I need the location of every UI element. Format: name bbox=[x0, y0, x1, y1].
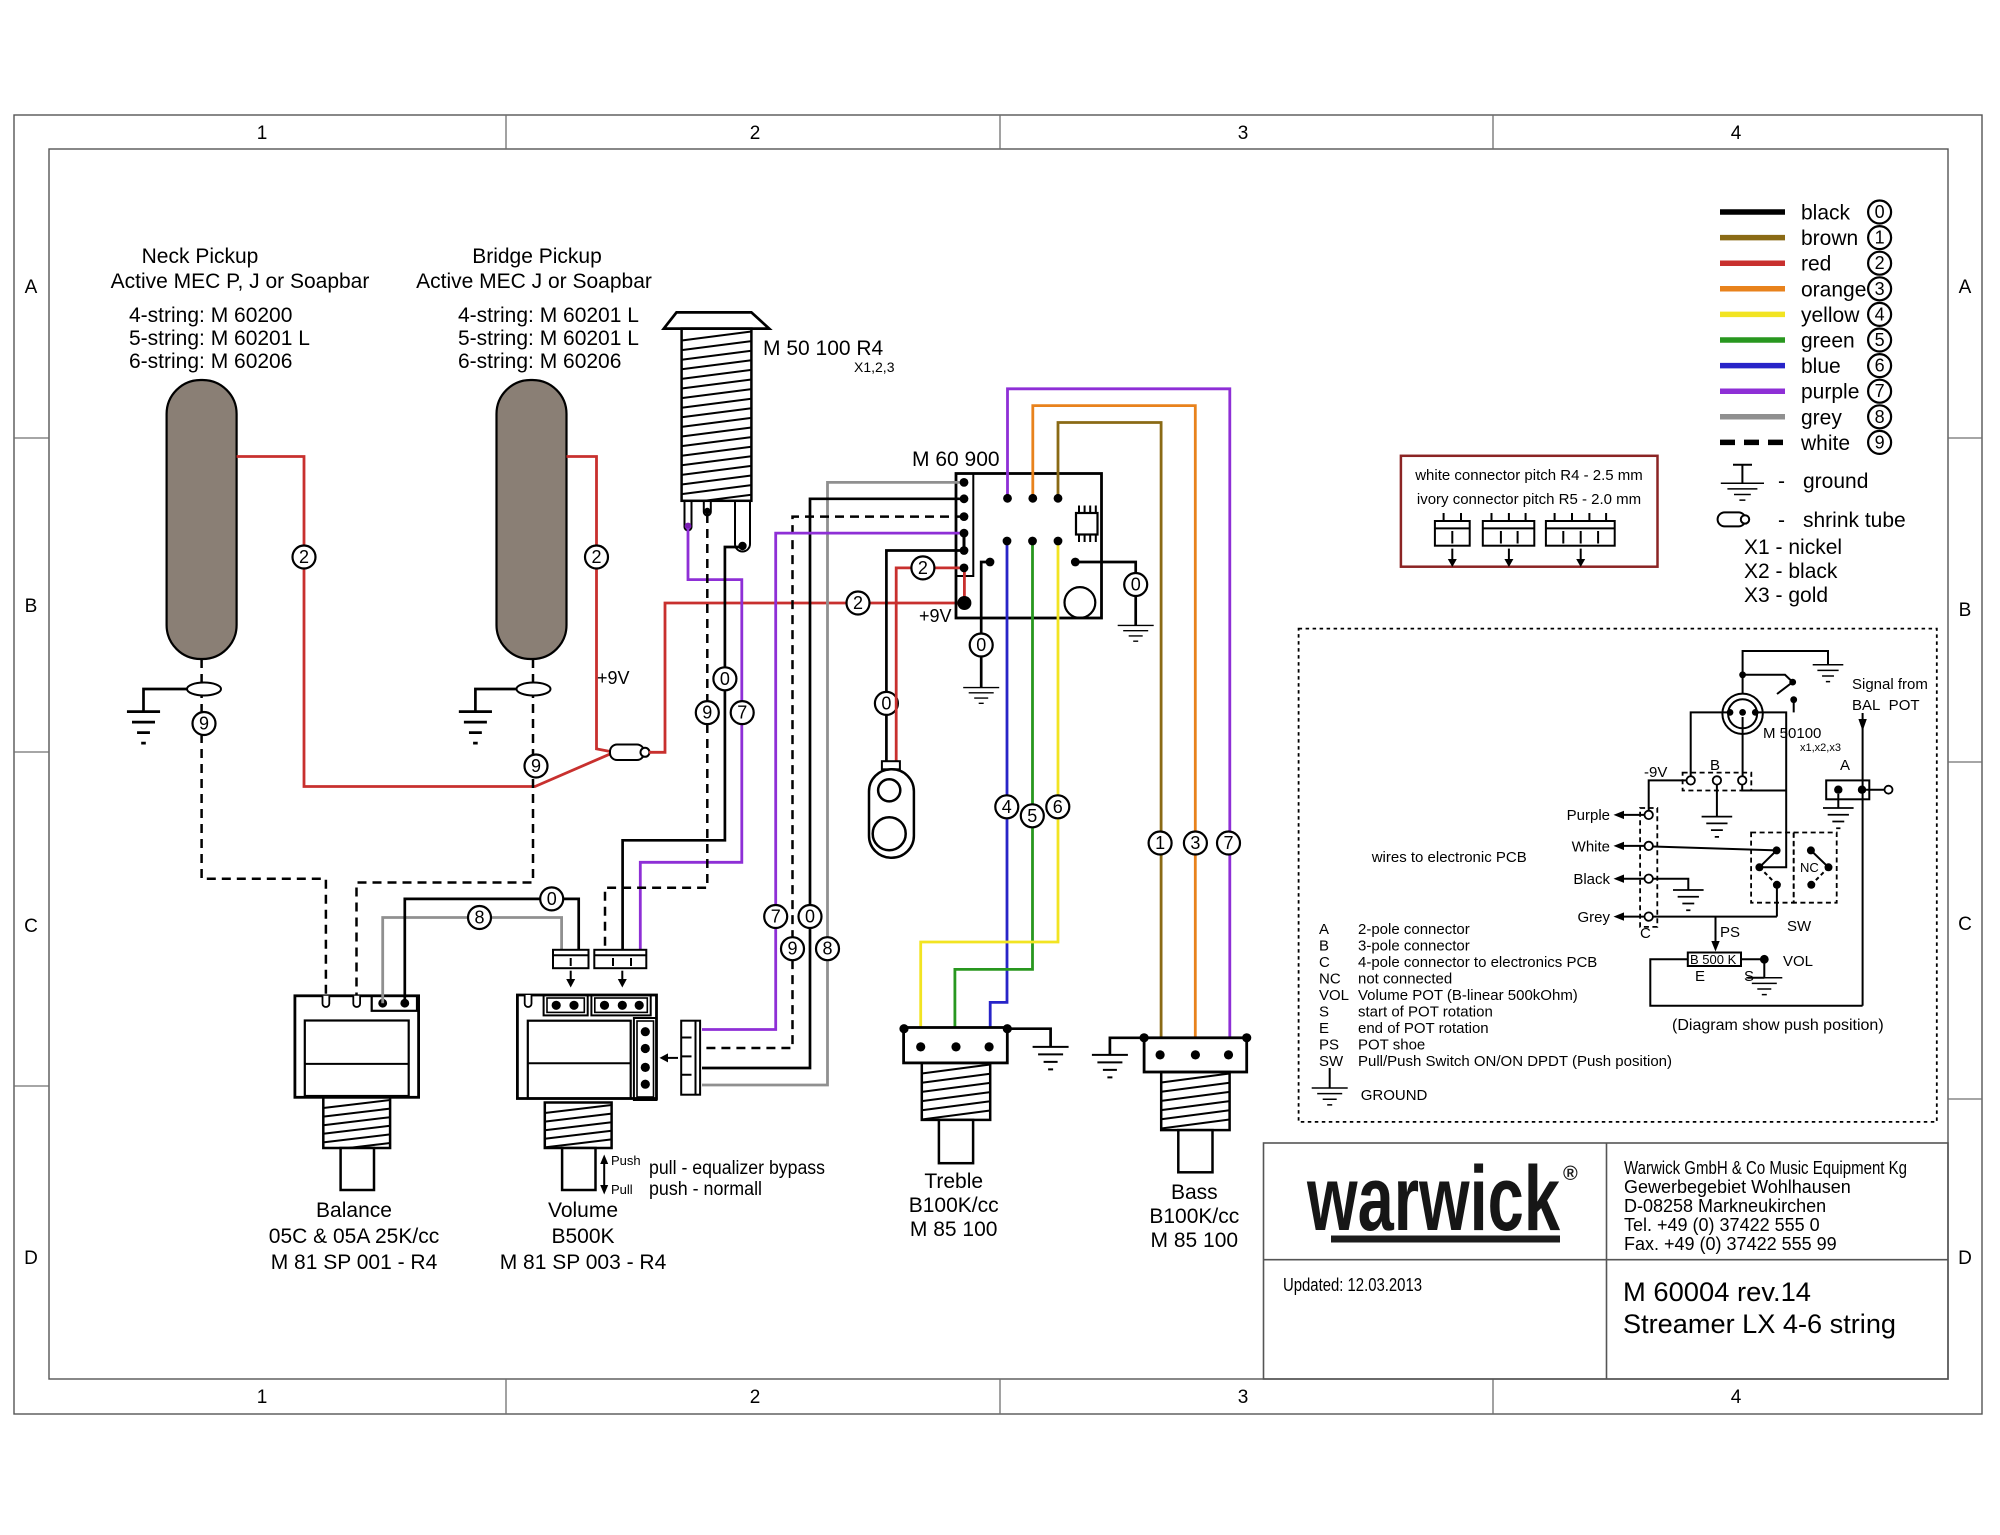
jack barrel threaded body bbox=[682, 332, 752, 504]
detail jack M 50100 circles bbox=[1722, 694, 1762, 734]
legend wire red bbox=[1720, 260, 1785, 266]
svg-text:0: 0 bbox=[1131, 575, 1141, 595]
svg-text:1: 1 bbox=[257, 1387, 268, 1408]
bass pot knob bbox=[1178, 1130, 1212, 1172]
balance pot labels bbox=[269, 1199, 439, 1274]
svg-text:X2 - black: X2 - black bbox=[1744, 560, 1838, 583]
volume push pull arrow bbox=[603, 1162, 605, 1187]
connector symbol 2-pole bbox=[1435, 521, 1470, 546]
detail wire White to SW bbox=[1653, 847, 1777, 851]
detail wire Grey to SW bottom bbox=[1653, 916, 1777, 918]
svg-text:D: D bbox=[1958, 1248, 1972, 1269]
balance pot shaft bbox=[323, 1100, 390, 1151]
svg-text:PS: PS bbox=[1720, 924, 1740, 941]
svg-text:C: C bbox=[24, 916, 38, 937]
svg-text:M 60004 rev.14: M 60004 rev.14 bbox=[1623, 1277, 1811, 1307]
detail wire jack top to ground bbox=[1743, 651, 1828, 694]
ground detail legend bbox=[1312, 1088, 1348, 1105]
svg-text:4-string: M 60200: 4-string: M 60200 bbox=[129, 304, 292, 327]
svg-text:grey: grey bbox=[1801, 406, 1842, 429]
volume pot knob bbox=[562, 1148, 595, 1190]
svg-text:9: 9 bbox=[199, 714, 209, 734]
svg-text:4: 4 bbox=[1731, 123, 1742, 144]
wire yellow PCB to treble pot bbox=[921, 541, 1058, 1046]
svg-text:PS: PS bbox=[1319, 1037, 1339, 1054]
svg-text:X1,2,3: X1,2,3 bbox=[854, 359, 895, 375]
svg-text:ground: ground bbox=[1803, 470, 1868, 493]
node label circled 9 on neck dashed wire bbox=[193, 712, 216, 735]
frame labels rows right bbox=[1958, 277, 1972, 1269]
detail wire B pin3 to SW vertical bbox=[1742, 785, 1786, 791]
svg-text:Pull: Pull bbox=[611, 1182, 633, 1197]
svg-text:VOL: VOL bbox=[1783, 953, 1813, 970]
svg-text:SW: SW bbox=[1319, 1053, 1344, 1070]
svg-text:Bass: Bass bbox=[1171, 1181, 1218, 1204]
detail wire E side bbox=[1650, 959, 1862, 1006]
node label circled 2 on neck red wire bbox=[293, 546, 316, 569]
node label circled 0 on pcb ground wire left bbox=[970, 634, 993, 657]
svg-text:(Diagram show push position): (Diagram show push position) bbox=[1672, 1017, 1884, 1034]
svg-text:M 85 100: M 85 100 bbox=[910, 1218, 998, 1241]
svg-text:7: 7 bbox=[771, 907, 781, 927]
svg-text:Black: Black bbox=[1573, 871, 1610, 888]
svg-text:Purple: Purple bbox=[1567, 807, 1610, 824]
svg-text:Push: Push bbox=[611, 1153, 641, 1168]
svg-text:7: 7 bbox=[737, 703, 747, 723]
PCB bottom row pins bbox=[1003, 537, 1012, 546]
frame column ticks top bbox=[506, 115, 1493, 149]
legend shrink tube symbol bbox=[1718, 512, 1746, 526]
battery clip small terminal bbox=[878, 779, 900, 801]
svg-text:Active MEC P, J or Soapbar: Active MEC P, J or Soapbar bbox=[111, 270, 370, 293]
battery clip cap bbox=[882, 761, 900, 769]
wire treble case ground bbox=[1007, 1029, 1050, 1047]
svg-text:green: green bbox=[1801, 330, 1855, 353]
svg-text:white: white bbox=[1800, 432, 1850, 455]
svg-text:Bridge Pickup: Bridge Pickup bbox=[472, 245, 602, 268]
svg-text:9: 9 bbox=[531, 756, 541, 776]
detail switch NC box bbox=[1794, 833, 1837, 903]
svg-text:-9V: -9V bbox=[1644, 764, 1667, 781]
svg-text:M 81 SP 003 - R4: M 81 SP 003 - R4 bbox=[500, 1251, 667, 1274]
Warwick logo bbox=[1306, 1148, 1578, 1250]
ground bass bbox=[1092, 1055, 1128, 1078]
svg-text:Fax. +49 (0) 37422 555 99: Fax. +49 (0) 37422 555 99 bbox=[1624, 1234, 1837, 1254]
svg-text:4-pole connector to electronic: 4-pole connector to electronics PCB bbox=[1358, 954, 1597, 971]
bass pot pins bbox=[1156, 1050, 1165, 1059]
svg-text:0: 0 bbox=[720, 669, 730, 689]
svg-text:B: B bbox=[25, 596, 38, 617]
svg-text:2: 2 bbox=[853, 593, 863, 613]
treble pot body bbox=[904, 1028, 1008, 1063]
detail wire -9V B pin1 to C pin1 bbox=[1649, 780, 1687, 810]
detail ground legend bbox=[1329, 1068, 1331, 1088]
svg-text:brown: brown bbox=[1801, 227, 1858, 250]
svg-text:S: S bbox=[1319, 1004, 1329, 1021]
balance pot knob bbox=[341, 1148, 374, 1190]
svg-text:E: E bbox=[1695, 968, 1705, 985]
PCB left pins bbox=[960, 478, 969, 487]
balance pot body bbox=[295, 996, 419, 1098]
svg-text:M 81 SP 001 - R4: M 81 SP 001 - R4 bbox=[271, 1251, 438, 1274]
svg-text:NC: NC bbox=[1319, 971, 1341, 988]
comb connector 3-pole above volume bbox=[594, 950, 646, 968]
comb connector 4-pole right of volume bbox=[681, 1021, 700, 1095]
svg-text:not connected: not connected bbox=[1358, 971, 1452, 988]
svg-text:1: 1 bbox=[1875, 228, 1885, 248]
bass pot shaft bbox=[1161, 1074, 1229, 1129]
svg-text:9: 9 bbox=[787, 939, 797, 959]
svg-text:2: 2 bbox=[750, 1387, 761, 1408]
svg-text:0: 0 bbox=[805, 907, 815, 927]
volume pot inner frame bbox=[528, 1021, 631, 1099]
wire bass case ground bbox=[1110, 1038, 1144, 1055]
svg-text:SW: SW bbox=[1787, 918, 1812, 935]
detail switch SW box bbox=[1751, 833, 1794, 903]
wire white neck pickup dashed to shrink tube bbox=[202, 659, 326, 996]
node label circled 9 on bridge dashed wire bbox=[525, 755, 548, 778]
node label circled 0 on battery black wire bbox=[875, 692, 898, 715]
ground detail jack bbox=[1813, 665, 1844, 682]
detail wire jack tip to SW bbox=[1755, 712, 1786, 867]
detail SW contacts bbox=[1773, 846, 1781, 854]
svg-text:C: C bbox=[1958, 914, 1972, 935]
legend ground bars bbox=[1721, 483, 1764, 500]
bass pot body bbox=[1144, 1038, 1247, 1072]
jack barrel cap bbox=[664, 312, 769, 328]
wire black jack tip to volume comb bbox=[623, 547, 742, 949]
node label circled 5 legend green bbox=[1868, 329, 1891, 352]
svg-text:5: 5 bbox=[1875, 330, 1885, 350]
title block outline bbox=[1264, 1143, 1949, 1379]
node label circled 1 on brown wire bbox=[1149, 832, 1172, 855]
svg-text:D-08258 Markneukirchen: D-08258 Markneukirchen bbox=[1624, 1196, 1826, 1216]
shrink tube on bridge ground wire bbox=[517, 683, 551, 696]
svg-text:2: 2 bbox=[918, 558, 928, 578]
connector symbol 3-pole bbox=[1483, 521, 1535, 546]
svg-text:B: B bbox=[1710, 757, 1720, 774]
jack prong 3 (tip) bbox=[735, 501, 750, 552]
wire black PCB left ground pin bbox=[981, 562, 990, 633]
svg-text:Pull/Push Switch ON/ON DPDT (P: Pull/Push Switch ON/ON DPDT (Push positi… bbox=[1358, 1053, 1672, 1070]
PCB +9V supply pin bbox=[957, 596, 971, 610]
wire bridge ground link bbox=[475, 689, 516, 712]
svg-text:B: B bbox=[1319, 938, 1329, 955]
balance pot slot 1 bbox=[323, 996, 330, 1007]
svg-text:red: red bbox=[1801, 253, 1831, 276]
comb 2-pole arrow bbox=[570, 971, 572, 980]
svg-text:1: 1 bbox=[1155, 833, 1165, 853]
svg-text:Volume POT (B-linear 500kOhm): Volume POT (B-linear 500kOhm) bbox=[1358, 987, 1578, 1004]
legend ground symbol bbox=[1733, 465, 1752, 483]
legend X finishes bbox=[1744, 536, 1842, 607]
volume pot labels bbox=[500, 1199, 667, 1274]
svg-text:0: 0 bbox=[1875, 202, 1885, 222]
svg-text:GROUND: GROUND bbox=[1361, 1087, 1428, 1104]
legend wire black bbox=[1720, 209, 1785, 215]
svg-text:3: 3 bbox=[1190, 833, 1200, 853]
svg-text:M 50100: M 50100 bbox=[1763, 725, 1821, 742]
svg-text:6-string: M 60206: 6-string: M 60206 bbox=[458, 350, 621, 373]
detail NC contacts bbox=[1807, 846, 1815, 854]
svg-text:8: 8 bbox=[1875, 407, 1885, 427]
wire white jack ring dashed to volume comb bbox=[605, 514, 707, 949]
node label circled 2 on battery red wire bbox=[911, 556, 934, 579]
svg-text:Updated: 12.03.2013: Updated: 12.03.2013 bbox=[1283, 1275, 1422, 1295]
svg-text:3: 3 bbox=[1238, 123, 1249, 144]
bridge pickup part numbers bbox=[458, 304, 639, 373]
svg-text:6-string: M 60206: 6-string: M 60206 bbox=[129, 350, 292, 373]
detail ground B centre pin bbox=[1716, 785, 1718, 817]
treble pot knob bbox=[939, 1120, 973, 1163]
svg-text:Active MEC J or Soapbar: Active MEC J or Soapbar bbox=[416, 270, 652, 293]
volume pot connector 3-pole bbox=[591, 995, 650, 1015]
node label circled 8 legend grey bbox=[1868, 405, 1891, 428]
frame labels columns top bbox=[257, 123, 1742, 144]
PCB pot hole circle bbox=[1065, 587, 1096, 618]
wire purple PCB to bass pot bbox=[1008, 389, 1230, 1048]
svg-text:B100K/cc: B100K/cc bbox=[909, 1194, 999, 1217]
wire red PCB pin6 to battery bbox=[896, 568, 964, 762]
svg-text:wires to electronic PCB: wires to electronic PCB bbox=[1371, 849, 1527, 866]
comb 4-pole arrow bbox=[667, 1057, 678, 1059]
neck pickup part numbers bbox=[129, 304, 310, 373]
svg-text:M 60 900: M 60 900 bbox=[912, 448, 1000, 471]
svg-text:0: 0 bbox=[547, 889, 557, 909]
svg-text:Tel. +49 (0) 37422 555 0: Tel. +49 (0) 37422 555 0 bbox=[1624, 1215, 1820, 1235]
svg-text:push - normall: push - normall bbox=[649, 1179, 762, 1200]
node label circled 5 on green wire bbox=[1021, 804, 1044, 827]
svg-text:5-string: M 60201 L: 5-string: M 60201 L bbox=[129, 327, 310, 350]
svg-text:1: 1 bbox=[257, 123, 268, 144]
svg-text:0: 0 bbox=[881, 693, 891, 713]
svg-text:9: 9 bbox=[702, 703, 712, 723]
svg-text:®: ® bbox=[1563, 1163, 1578, 1185]
svg-text:X1 - nickel: X1 - nickel bbox=[1744, 536, 1842, 559]
node label circled 4 on blue wire bbox=[995, 795, 1018, 818]
company address bbox=[1624, 1158, 1907, 1254]
svg-text:6: 6 bbox=[1875, 356, 1885, 376]
svg-text:Balance: Balance bbox=[316, 1199, 392, 1222]
node label circled 9 on dashed pcb wire bbox=[781, 937, 804, 960]
wire orange PCB to bass pot bbox=[1033, 406, 1196, 1048]
svg-text:Signal from: Signal from bbox=[1852, 676, 1928, 693]
svg-text:BAL POT: BAL POT bbox=[1852, 697, 1920, 714]
svg-text:7: 7 bbox=[1223, 833, 1233, 853]
svg-text:shrink tube: shrink tube bbox=[1803, 509, 1906, 532]
node label circled 7 legend purple bbox=[1868, 380, 1891, 403]
ground detail VOL bbox=[1746, 978, 1782, 995]
svg-text:X3 - gold: X3 - gold bbox=[1744, 584, 1828, 607]
svg-text:3: 3 bbox=[1875, 279, 1885, 299]
wire blue PCB to treble pot bbox=[990, 541, 1007, 1046]
svg-text:8: 8 bbox=[474, 908, 484, 928]
svg-text:3-pole connector: 3-pole connector bbox=[1358, 938, 1470, 955]
bass pot corner junctions bbox=[1140, 1033, 1149, 1042]
svg-text:blue: blue bbox=[1801, 355, 1841, 378]
svg-text:4-string: M 60201 L: 4-string: M 60201 L bbox=[458, 304, 639, 327]
wire link PCB pin4 to pin5 bbox=[963, 533, 966, 550]
svg-text:M 50 100 R4: M 50 100 R4 bbox=[763, 337, 884, 360]
svg-text:05C & 05A 25K/cc: 05C & 05A 25K/cc bbox=[269, 1225, 439, 1248]
ground bridge pickup bbox=[459, 712, 492, 744]
node label circled 0 on balance black wire bbox=[540, 887, 563, 910]
jack prong 1 (sleeve) bbox=[685, 501, 692, 531]
legend wire grey bbox=[1720, 414, 1785, 420]
wire pcb ground left stem bbox=[980, 657, 983, 688]
detail wire jack centre to B pin3 bbox=[1742, 717, 1744, 777]
detail abbreviation list bbox=[1319, 921, 1672, 1070]
svg-text:B100K/cc: B100K/cc bbox=[1149, 1205, 1239, 1228]
legend wire blue bbox=[1720, 363, 1785, 369]
volume pot slot bbox=[525, 995, 532, 1007]
node label circled 0 on black pcb wire bbox=[799, 905, 822, 928]
wire white bridge pickup dashed bbox=[357, 659, 534, 996]
svg-text:white connector pitch R4 - 2.5: white connector pitch R4 - 2.5 mm bbox=[1414, 467, 1643, 484]
wire green PCB to treble pot bbox=[955, 541, 1033, 1046]
node label circled 6 on yellow wire bbox=[1046, 795, 1069, 818]
svg-text:+9V: +9V bbox=[597, 668, 630, 688]
wire red supply to PCB +9V bbox=[649, 603, 959, 752]
shrink tube on red supply wire bbox=[610, 745, 644, 761]
detail connector C bbox=[1640, 808, 1657, 927]
volume pot connector right 4-pole bbox=[634, 1018, 657, 1100]
PCB connector box left bbox=[956, 474, 973, 577]
volume pot connector 2-pole bbox=[544, 995, 588, 1015]
wire white PCB pin3 dashed to volume comb bbox=[702, 517, 964, 1048]
svg-text:4: 4 bbox=[1731, 1387, 1742, 1408]
ground detail A bbox=[1823, 808, 1854, 828]
svg-text:5-string: M 60201 L: 5-string: M 60201 L bbox=[458, 327, 639, 350]
svg-text:Warwick GmbH & Co Music Equipm: Warwick GmbH & Co Music Equipment Kg bbox=[1624, 1158, 1907, 1178]
wire neck ground link bbox=[144, 689, 188, 712]
svg-text:-: - bbox=[1778, 509, 1785, 532]
frame labels rows left bbox=[24, 277, 38, 1269]
svg-text:Neck Pickup: Neck Pickup bbox=[142, 245, 259, 268]
frame row ticks left bbox=[14, 438, 49, 1086]
legend wire purple bbox=[1720, 388, 1785, 394]
detail wire S side to VOL node bbox=[1741, 959, 1764, 977]
svg-text:A: A bbox=[1959, 277, 1972, 298]
svg-text:8: 8 bbox=[822, 939, 832, 959]
comb 3-pole arrow bbox=[621, 971, 623, 980]
svg-text:2: 2 bbox=[591, 547, 601, 567]
frame row ticks right bbox=[1948, 438, 1982, 1099]
balance pot inner frame bbox=[305, 1021, 409, 1097]
svg-text:Volume: Volume bbox=[548, 1199, 618, 1222]
wire purple jack sleeve to volume comb bbox=[640, 528, 742, 949]
svg-text:start of POT rotation: start of POT rotation bbox=[1358, 1004, 1493, 1021]
wire black balance to comb bbox=[405, 899, 579, 1003]
svg-text:2-pole connector: 2-pole connector bbox=[1358, 921, 1470, 938]
wire red neck pickup hot bbox=[237, 457, 614, 787]
ground pcb right bbox=[1118, 625, 1154, 641]
svg-text:-: - bbox=[1778, 470, 1785, 493]
svg-text:C: C bbox=[1319, 954, 1330, 971]
connector info box bbox=[1401, 456, 1658, 567]
svg-text:Treble: Treble bbox=[924, 1170, 983, 1193]
node label circled 0 legend black bbox=[1868, 201, 1891, 224]
svg-text:x1,x2,x3: x1,x2,x3 bbox=[1800, 742, 1841, 754]
svg-text:0: 0 bbox=[976, 635, 986, 655]
wire black PCB pin5 to battery bbox=[886, 551, 964, 763]
svg-text:yellow: yellow bbox=[1801, 304, 1860, 327]
svg-text:Gewerbegebiet Wohlhausen: Gewerbegebiet Wohlhausen bbox=[1624, 1177, 1851, 1197]
node label circled 3 on orange wire bbox=[1184, 832, 1207, 855]
PCB top row pins bbox=[1003, 494, 1012, 503]
ground neck pickup bbox=[127, 712, 160, 744]
svg-text:end of POT rotation: end of POT rotation bbox=[1358, 1020, 1489, 1037]
ground pcb left bbox=[963, 688, 999, 704]
svg-text:VOL: VOL bbox=[1319, 987, 1349, 1004]
svg-text:B 500 K: B 500 K bbox=[1690, 952, 1737, 967]
wire black PCB right ground pin bbox=[1075, 562, 1135, 572]
treble pot pins bbox=[916, 1042, 925, 1051]
wire pcb ground right stem bbox=[1134, 597, 1137, 626]
node label circled 0 on pcb ground wire right bbox=[1124, 573, 1147, 596]
wire grey balance to comb bbox=[383, 918, 562, 1004]
node label circled 3 legend orange bbox=[1868, 277, 1891, 300]
detail box dashed border bbox=[1299, 629, 1937, 1122]
svg-text:POT shoe: POT shoe bbox=[1358, 1037, 1425, 1054]
detail ground A bbox=[1837, 794, 1839, 808]
detail C pin White bbox=[1645, 842, 1653, 850]
ground detail black wire bbox=[1673, 890, 1704, 910]
node label circled 8 on grey pcb wire bbox=[816, 937, 839, 960]
treble pot labels bbox=[909, 1170, 999, 1241]
svg-text:4: 4 bbox=[1875, 304, 1885, 324]
svg-text:+9V: +9V bbox=[919, 606, 952, 626]
PCB board outline bbox=[956, 474, 1102, 619]
bridge pickup label bbox=[416, 245, 652, 293]
wire brown PCB to bass pot bbox=[1058, 423, 1161, 1049]
wire black PCB pin2 to volume comb bbox=[702, 499, 964, 1068]
neck pickup label bbox=[111, 245, 370, 293]
node label circled 2 on red supply wire bbox=[847, 592, 870, 615]
volume pot body bbox=[517, 995, 656, 1099]
svg-text:ivory connector pitch R5 - 2.0: ivory connector pitch R5 - 2.0 mm bbox=[1417, 491, 1641, 508]
ground treble bbox=[1033, 1047, 1069, 1070]
bass pot labels bbox=[1149, 1181, 1239, 1252]
node label circled 6 legend blue bbox=[1868, 354, 1891, 377]
legend wire brown bbox=[1720, 235, 1785, 241]
comb connector 2-pole above volume bbox=[553, 950, 589, 968]
svg-text:B: B bbox=[1959, 600, 1972, 621]
wire purple PCB pin4 to volume comb bbox=[702, 533, 964, 1029]
detail VOL pot B 500 K bbox=[1688, 953, 1741, 967]
volume pot shaft bbox=[545, 1105, 612, 1147]
neck pickup body bbox=[167, 380, 237, 659]
svg-text:2: 2 bbox=[1875, 253, 1885, 273]
detail PS arrow bbox=[1715, 917, 1717, 943]
svg-text:warwick: warwick bbox=[1306, 1148, 1560, 1250]
node label circled 2 legend red bbox=[1868, 252, 1891, 275]
svg-text:NC: NC bbox=[1800, 860, 1819, 875]
svg-text:Streamer LX 4-6 string: Streamer LX 4-6 string bbox=[1623, 1309, 1896, 1339]
battery clip large terminal bbox=[873, 817, 906, 850]
node label circled 0 on jack black wire bbox=[713, 667, 736, 690]
wire red bridge pickup hot bbox=[567, 457, 615, 753]
svg-text:purple: purple bbox=[1801, 381, 1859, 404]
node label circled 7 on purple pcb wire bbox=[764, 905, 787, 928]
legend wire green bbox=[1720, 337, 1785, 343]
detail wire jack left to B pin1 bbox=[1691, 712, 1730, 777]
treble pot corner junctions bbox=[899, 1024, 908, 1033]
legend wire white dashed bbox=[1720, 440, 1785, 446]
svg-text:3: 3 bbox=[1238, 1387, 1249, 1408]
svg-text:7: 7 bbox=[1875, 381, 1885, 401]
node label circled 9 on jack dashed wire bbox=[696, 701, 719, 724]
